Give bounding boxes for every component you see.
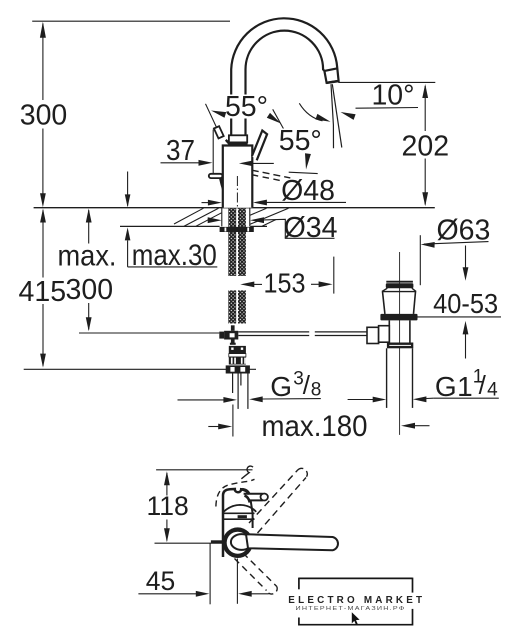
svg-text:Ø34: Ø34 bbox=[284, 212, 338, 244]
lever handle (solid position) bbox=[252, 131, 267, 161]
pull-rod tee bbox=[219, 332, 224, 339]
rod socket blocks bbox=[367, 327, 379, 343]
drain locknut bbox=[387, 343, 413, 349]
deck / countertop top line bbox=[34, 207, 435, 209]
svg-text:415: 415 bbox=[19, 276, 67, 308]
dimension max300 bbox=[88, 210, 90, 243]
side view body right edge bbox=[251, 501, 253, 528]
drain body tube bbox=[388, 320, 390, 342]
svg-text:G1: G1 bbox=[435, 371, 473, 402]
threaded shank stippled strips (upper) bbox=[228, 208, 236, 276]
water stream 10deg line bbox=[332, 84, 342, 147]
svg-text:300: 300 bbox=[20, 99, 68, 131]
phantom raised lever (dashed) bbox=[258, 478, 307, 534]
55deg right arrow bbox=[267, 113, 281, 124]
svg-text:45: 45 bbox=[146, 566, 175, 596]
lever rod (horizontal) bbox=[246, 534, 338, 550]
svg-text:55°: 55° bbox=[279, 125, 322, 157]
dimension O34 arrows bbox=[208, 217, 222, 223]
55deg left arrow bbox=[211, 111, 226, 118]
hose strips lower segment bbox=[228, 290, 236, 323]
deck bottom line left bbox=[120, 225, 220, 227]
hose connector block bbox=[229, 346, 246, 354]
stub junction shading bbox=[242, 489, 249, 494]
phantom lowered lever (dashed) bbox=[243, 553, 277, 587]
deck hole edges bbox=[221, 208, 223, 227]
deck bottom line right bbox=[250, 225, 267, 227]
svg-text:/: / bbox=[303, 370, 311, 400]
O34 leader + text bbox=[264, 219, 335, 238]
37 extension line bbox=[212, 130, 214, 174]
118 top extent line bbox=[156, 469, 252, 471]
svg-text:300: 300 bbox=[66, 274, 114, 306]
lever ball end bbox=[231, 534, 252, 550]
deck hatch left bbox=[184, 208, 219, 226]
hose nuts band bbox=[226, 365, 250, 373]
drain tailpipe bbox=[386, 348, 388, 408]
pivot ring bbox=[222, 527, 253, 558]
37 inner arrow bbox=[239, 161, 253, 167]
pop-up cap bbox=[386, 281, 413, 283]
G1 1/4 underline bbox=[433, 397, 498, 399]
phantom lever tip hook bbox=[241, 466, 253, 479]
svg-text:37: 37 bbox=[166, 135, 195, 167]
dimension G1 1/4 bbox=[348, 399, 374, 401]
drain flange bell bbox=[382, 291, 416, 293]
spout nozzle cap line bbox=[324, 68, 337, 71]
svg-text:ELECTRO MARKET: ELECTRO MARKET bbox=[288, 595, 425, 606]
mounting washer band bbox=[220, 227, 254, 232]
svg-text:8: 8 bbox=[311, 380, 322, 401]
svg-text:40-53: 40-53 bbox=[433, 288, 498, 319]
drain centerline bbox=[399, 252, 401, 435]
dimension 300 (left) bbox=[42, 24, 44, 101]
side view body outline bbox=[223, 489, 249, 557]
phantom lever rotated-left position bbox=[214, 126, 224, 138]
dimension max180 bbox=[208, 426, 220, 428]
153 extension line (spout outlet) bbox=[333, 257, 335, 294]
side view spout stub bbox=[244, 494, 263, 501]
logo frame bbox=[299, 577, 413, 579]
55deg left flank line bbox=[206, 104, 218, 129]
118 bottom extent line bbox=[155, 542, 223, 544]
water stream vertical reference bbox=[331, 84, 334, 148]
spout tube (curved arc + legs) bbox=[231, 18, 338, 136]
55deg right flank line bbox=[273, 109, 287, 134]
dimension G3/8 bbox=[178, 399, 225, 401]
top extent line (300 upper reference) bbox=[32, 20, 230, 22]
svg-text:10°: 10° bbox=[371, 80, 414, 112]
O63 extension line bbox=[419, 235, 421, 285]
10deg angle arc with arrow bbox=[299, 103, 322, 121]
body centerline bbox=[236, 176, 238, 208]
svg-text:ИНТЕРНЕТ-МАГАЗИН.РФ: ИНТЕРНЕТ-МАГАЗИН.РФ bbox=[296, 606, 406, 612]
pop-up rod to drain bbox=[238, 331, 309, 333]
dimension 118 bbox=[164, 471, 170, 485]
deck hatch right bbox=[250, 208, 267, 215]
label 55deg (lever) bbox=[278, 129, 324, 153]
svg-text:max.: max. bbox=[58, 240, 117, 273]
dimension 415 bbox=[42, 210, 44, 277]
55deg lever down arrow + baseline bbox=[305, 153, 311, 169]
svg-text:G: G bbox=[270, 371, 292, 402]
side view body bands bbox=[222, 512, 255, 514]
countertop tab bbox=[211, 540, 223, 543]
svg-text:4: 4 bbox=[487, 380, 498, 401]
svg-text:55°: 55° bbox=[225, 91, 268, 123]
phantom lever lower wedge bbox=[226, 140, 230, 145]
45 extension line left bbox=[209, 543, 211, 604]
collar dark band bbox=[228, 142, 247, 146]
body left tab wedge bbox=[219, 178, 222, 191]
mouse cursor bbox=[352, 612, 360, 624]
415 lower extent line bbox=[24, 368, 256, 370]
cap flare bbox=[382, 288, 387, 291]
dimension max30 bbox=[127, 172, 129, 206]
supply pipes below nuts bbox=[232, 374, 234, 394]
svg-text:202: 202 bbox=[402, 131, 450, 163]
svg-text:118: 118 bbox=[146, 491, 188, 521]
dashed lever horizontal position bbox=[252, 170, 290, 178]
label 55deg (spout swivel) bbox=[224, 95, 270, 119]
spout outlet bottom edge bbox=[326, 81, 338, 83]
faucet body bbox=[223, 146, 253, 208]
max300 extent line bbox=[79, 332, 219, 334]
45 extension line right bbox=[236, 559, 238, 604]
svg-text:/: / bbox=[479, 370, 487, 400]
flange seal band bbox=[380, 314, 417, 321]
max180 left extension line bbox=[232, 405, 234, 437]
phantom dome arc (dashed) bbox=[216, 479, 255, 506]
dimension 202 bbox=[424, 86, 426, 131]
svg-text:153: 153 bbox=[264, 268, 306, 299]
10deg leader underline + arrow bbox=[356, 107, 419, 110]
svg-text:max.180: max.180 bbox=[262, 410, 368, 443]
side view lever dome bbox=[224, 505, 257, 512]
10deg reference horizontal line bbox=[338, 81, 435, 83]
body left tab detail bbox=[209, 174, 223, 178]
collar under spout bbox=[229, 135, 247, 142]
